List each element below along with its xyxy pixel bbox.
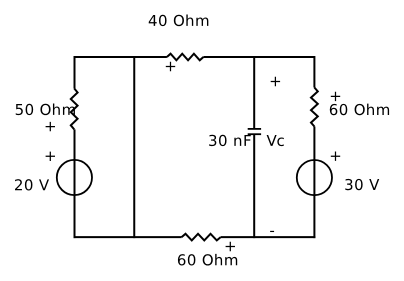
wire left lower <box>74 129 76 238</box>
polarity + (50 Ohm) <box>46 122 55 131</box>
label 60 Ohm (bottom) <box>178 254 237 266</box>
polarity + (40 Ohm) <box>166 62 175 71</box>
voltage source 20 V (circle) <box>57 160 92 195</box>
label 60 Ohm (right) <box>330 104 389 116</box>
wire middle branch <box>133 56 135 238</box>
wire capacitor branch lower <box>253 134 255 238</box>
wire right lower <box>313 127 315 239</box>
wire top-right segment <box>203 56 314 58</box>
resistor 50 Ohm (left) <box>71 88 78 129</box>
wire top-left segment <box>75 56 167 58</box>
label Vc <box>267 135 284 146</box>
wire left upper <box>74 56 76 88</box>
wire bottom-left segment <box>74 236 182 238</box>
polarity + (60 Ohm right) <box>331 92 340 101</box>
capacitor 30 nF plates <box>248 129 261 134</box>
wire capacitor branch upper <box>253 56 255 129</box>
polarity + (60 Ohm bottom) <box>226 242 235 251</box>
resistor 40 Ohm (top) <box>167 54 204 61</box>
polarity + (30 V source) <box>331 152 340 161</box>
label 40 Ohm <box>149 15 209 27</box>
resistor 60 Ohm (bottom) <box>182 234 221 241</box>
polarity + (20 V source) <box>46 152 55 161</box>
label 30 V <box>345 179 379 190</box>
resistor 60 Ohm (right) <box>311 88 318 127</box>
wire bottom-right segment <box>221 236 316 238</box>
label 20 V <box>15 179 49 190</box>
polarity + (capacitor Vc) <box>271 77 280 86</box>
label 50 Ohm <box>16 104 75 116</box>
label 30 nF <box>209 135 251 146</box>
voltage source 30 V (circle) <box>297 160 332 195</box>
wire right upper <box>313 56 315 88</box>
polarity - (capacitor Vc) <box>270 231 274 232</box>
